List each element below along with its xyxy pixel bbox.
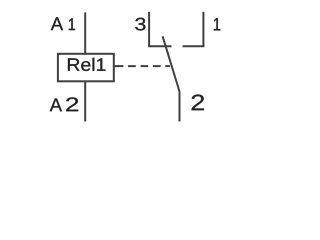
pin label 1 (214, 18, 220, 30)
value label Rel1 (68, 58, 105, 71)
wire A2 lead (bottom left vertical) (84, 81, 86, 121)
relay coil box Rel1 (58, 54, 114, 82)
pin label 3 (135, 18, 145, 31)
label A2 digit 2 (66, 97, 78, 111)
wire pin 3 lead (vertical) (148, 12, 150, 46)
wire dashed mechanical link coil-to-contact (114, 65, 170, 67)
pin label 2 (192, 94, 204, 110)
label A1 letter A (51, 17, 63, 30)
wire A1 lead (top left vertical) (84, 12, 86, 53)
label A2 letter A (50, 98, 62, 111)
wire pin 2 lead (bottom vertical) (179, 92, 181, 122)
switch lever (common arm from pin 2) (163, 36, 180, 91)
contact 3 fixed throw (horizontal foot) (148, 45, 171, 47)
label A1 digit 1 (69, 18, 75, 30)
wire pin 1 lead (vertical) (202, 12, 204, 46)
contact 1 fixed throw (horizontal foot) (183, 45, 205, 47)
